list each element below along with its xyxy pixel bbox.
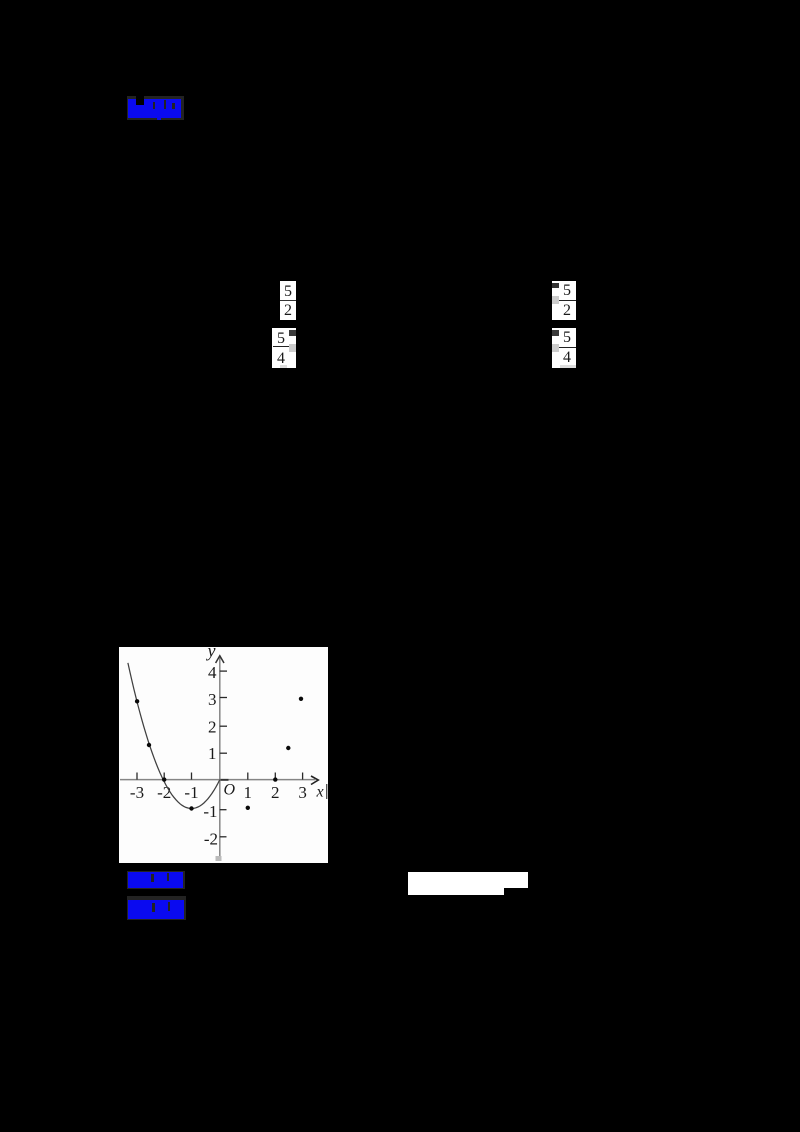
x ticks xyxy=(137,773,303,780)
svg-text:y: y xyxy=(206,647,216,661)
svg-text:-1: -1 xyxy=(203,802,217,821)
gray mark at bottom of y axis xyxy=(216,856,222,861)
svg-text:-3: -3 xyxy=(130,783,144,802)
blue label 1 (answer tag) xyxy=(127,96,184,120)
svg-text:-2: -2 xyxy=(157,783,171,802)
cursor line right of x label xyxy=(326,784,327,799)
x axis xyxy=(120,779,315,781)
fraction -5/2 (right) xyxy=(552,281,576,320)
dark segment on axis right of origin xyxy=(221,779,229,781)
white strip (selection) xyxy=(408,872,504,895)
graph image xyxy=(119,647,328,863)
svg-text:2: 2 xyxy=(271,783,280,802)
svg-text:-2: -2 xyxy=(204,830,218,849)
parabola curve xyxy=(128,663,220,809)
svg-text:1: 1 xyxy=(208,744,217,763)
svg-text:3: 3 xyxy=(298,783,307,802)
svg-text:1: 1 xyxy=(244,783,253,802)
svg-text:x: x xyxy=(316,784,324,801)
svg-text:3: 3 xyxy=(208,690,217,709)
axis labels xyxy=(130,641,324,849)
fraction 5/4 (left) xyxy=(272,328,296,368)
svg-text:2: 2 xyxy=(208,718,217,737)
svg-text:-1: -1 xyxy=(184,783,198,802)
blue label 2 xyxy=(127,871,185,889)
dots on curve xyxy=(135,697,303,811)
fraction 5/2 (left) xyxy=(280,281,296,320)
svg-text:4: 4 xyxy=(208,663,217,682)
svg-text:O: O xyxy=(224,782,236,799)
y axis xyxy=(219,657,221,861)
fraction -5/4 (right) xyxy=(552,328,576,368)
y ticks xyxy=(220,671,227,837)
blue label 3 xyxy=(127,896,186,920)
